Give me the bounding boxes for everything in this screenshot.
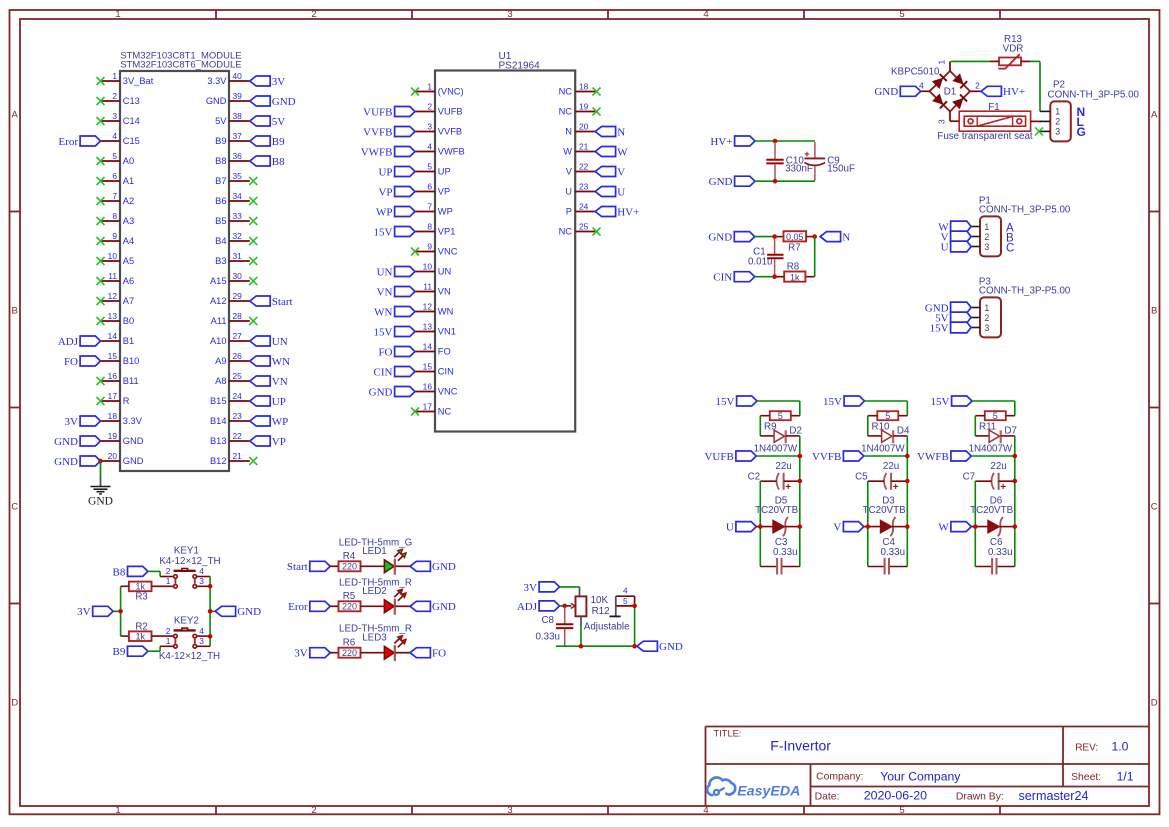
svg-text:VWFB: VWFB	[917, 451, 949, 463]
resistor R8 1k	[784, 261, 805, 282]
svg-text:LED1: LED1	[362, 546, 387, 557]
svg-text:B8: B8	[272, 156, 285, 168]
svg-text:15V: 15V	[930, 322, 949, 334]
svg-text:A: A	[1151, 110, 1158, 121]
svg-text:+: +	[804, 149, 810, 160]
svg-text:22u: 22u	[990, 461, 1006, 472]
svg-text:8: 8	[112, 211, 117, 221]
pin 23 U	[565, 182, 595, 197]
wire N to R8	[805, 237, 814, 277]
svg-text:11: 11	[108, 271, 117, 281]
net label 15V	[716, 396, 757, 408]
svg-text:15V: 15V	[374, 226, 393, 238]
svg-text:A15: A15	[210, 276, 227, 286]
pin 1 (VNC)	[411, 82, 464, 97]
svg-text:VVFB: VVFB	[363, 126, 392, 138]
pin 37 B9	[215, 131, 250, 146]
svg-text:C8: C8	[541, 615, 554, 626]
pin 3 C14	[97, 111, 140, 126]
svg-text:4: 4	[623, 585, 628, 595]
svg-text:R: R	[123, 396, 130, 406]
svg-text:WP: WP	[438, 207, 453, 217]
svg-text:W: W	[617, 146, 628, 158]
svg-text:Eror: Eror	[288, 601, 308, 613]
TVS diode D5 TC20VTB	[755, 495, 798, 536]
net label CIN	[374, 366, 415, 378]
wire left rail	[974, 481, 976, 567]
svg-text:17: 17	[423, 402, 433, 412]
svg-text:15: 15	[108, 351, 118, 361]
svg-text:2: 2	[984, 232, 989, 242]
wire R to D	[868, 416, 882, 436]
svg-text:C5: C5	[855, 471, 868, 482]
svg-text:18: 18	[108, 411, 118, 421]
svg-text:D7: D7	[1004, 426, 1017, 437]
net label 3V	[524, 582, 560, 594]
pin 6 A1	[97, 171, 135, 186]
net label 5V	[935, 312, 971, 324]
svg-text:14: 14	[108, 331, 118, 341]
node	[798, 454, 803, 459]
svg-text:ADJ: ADJ	[58, 336, 79, 348]
svg-text:EasyEDA: EasyEDA	[737, 783, 800, 799]
pin 2 C13	[97, 91, 140, 106]
svg-text:5: 5	[885, 411, 890, 421]
wire to ground	[100, 461, 102, 486]
node	[773, 139, 778, 144]
svg-text:GND: GND	[432, 561, 456, 573]
svg-text:GND: GND	[432, 601, 456, 613]
svg-text:8: 8	[427, 222, 432, 232]
svg-text:A10: A10	[210, 336, 227, 346]
svg-text:R4: R4	[343, 551, 356, 562]
wire bottom rail	[556, 606, 637, 646]
svg-text:2: 2	[166, 566, 171, 576]
svg-text:G: G	[1077, 125, 1086, 139]
svg-text:C: C	[1006, 243, 1014, 255]
pin 30 A15	[210, 271, 257, 286]
pin 12 A7	[97, 291, 135, 306]
svg-text:WP: WP	[272, 416, 289, 428]
svg-text:B: B	[12, 306, 18, 317]
wire R to D	[975, 416, 989, 436]
svg-text:C7: C7	[963, 471, 976, 482]
svg-text:FO: FO	[378, 346, 392, 358]
svg-text:N: N	[617, 126, 625, 138]
svg-text:5V: 5V	[272, 116, 286, 128]
connector P1 CONN-TH_3P-P5.00	[971, 196, 1071, 257]
svg-text:9: 9	[112, 231, 117, 241]
pin 15 CIN	[415, 362, 454, 377]
pin 17 R	[97, 391, 130, 406]
pin 19 GND	[101, 431, 144, 446]
net label GND	[708, 232, 754, 244]
svg-text:12: 12	[108, 291, 118, 301]
svg-text:31: 31	[233, 251, 243, 261]
svg-text:B5: B5	[215, 216, 226, 226]
net label 15V	[931, 396, 972, 408]
svg-text:A9: A9	[215, 356, 226, 366]
svg-text:1: 1	[1055, 107, 1060, 117]
svg-text:22u: 22u	[883, 461, 899, 472]
svg-text:B6: B6	[215, 196, 226, 206]
capacitor C1 0.01u	[748, 239, 784, 277]
svg-text:VP1: VP1	[438, 227, 456, 237]
svg-text:2020-06-20: 2020-06-20	[864, 789, 927, 803]
svg-text:STM32F103C8T6_MODULE: STM32F103C8T6_MODULE	[120, 60, 241, 71]
svg-text:VWFB: VWFB	[438, 147, 465, 157]
svg-text:VP: VP	[272, 436, 286, 448]
pin 40 3.3V	[207, 71, 249, 86]
svg-text:1k: 1k	[790, 272, 800, 282]
net label U	[941, 241, 971, 253]
pin 18 NC	[559, 82, 601, 97]
svg-text:B13: B13	[210, 436, 227, 446]
wire R to D	[760, 416, 774, 436]
svg-text:V: V	[566, 167, 573, 177]
svg-text:WN: WN	[374, 306, 392, 318]
svg-text:1: 1	[984, 303, 989, 313]
net label GND	[874, 86, 920, 98]
node	[579, 604, 637, 649]
wire 15V	[757, 401, 800, 416]
svg-text:GND: GND	[54, 456, 78, 468]
svg-text:sermaster24: sermaster24	[1019, 789, 1089, 803]
wire B9 to KEY2.1	[148, 646, 174, 651]
svg-text:GND: GND	[369, 386, 393, 398]
svg-text:TC20VTB: TC20VTB	[863, 505, 906, 516]
net label B8	[113, 566, 148, 578]
net label B9	[250, 136, 285, 148]
svg-text:V: V	[617, 166, 625, 178]
svg-text:18: 18	[579, 82, 589, 92]
svg-text:VN1: VN1	[438, 327, 456, 337]
svg-text:10: 10	[423, 262, 433, 272]
svg-text:1k: 1k	[135, 632, 145, 642]
net label HV+	[981, 86, 1025, 98]
svg-text:HV+: HV+	[617, 206, 639, 218]
pin 12 WN	[415, 302, 453, 317]
svg-text:6: 6	[112, 171, 117, 181]
svg-text:A1: A1	[123, 176, 134, 186]
net label 3V	[65, 416, 101, 428]
svg-text:N: N	[842, 232, 850, 244]
svg-text:P: P	[566, 207, 572, 217]
svg-text:39: 39	[233, 91, 243, 101]
node	[772, 234, 777, 239]
svg-text:Date:: Date:	[815, 791, 840, 802]
net label 15V	[930, 322, 971, 334]
svg-text:A12: A12	[210, 296, 227, 306]
svg-text:24: 24	[233, 391, 243, 401]
svg-text:CIN: CIN	[713, 272, 732, 284]
diode D7 1N4007W	[969, 426, 1017, 455]
resistor R6 220	[330, 638, 360, 658]
pin 16 VNC	[415, 382, 458, 397]
pin 10 A5	[97, 251, 135, 266]
svg-text:5: 5	[778, 411, 783, 421]
pin 22 B13	[210, 431, 250, 446]
svg-text:Adjustable: Adjustable	[584, 622, 630, 633]
diode D2 1N4007W	[754, 426, 802, 455]
node	[773, 179, 778, 184]
wire phase	[971, 526, 1015, 528]
svg-text:VVFB: VVFB	[438, 127, 462, 137]
svg-text:37: 37	[233, 131, 243, 141]
capacitor C6 0.33u	[975, 537, 1015, 574]
net label Start	[287, 561, 330, 573]
bridge rectifier D1 KBPC5010	[891, 60, 981, 125]
wire 15V	[865, 401, 908, 416]
IC U1 PS21964	[435, 51, 575, 432]
svg-text:HV+: HV+	[710, 136, 732, 148]
svg-text:LED2: LED2	[362, 586, 387, 597]
net label Eror	[288, 601, 330, 613]
svg-text:D2: D2	[789, 426, 802, 437]
pin 17 NC	[411, 402, 452, 417]
svg-text:K4-12×12_TH: K4-12×12_TH	[159, 651, 220, 662]
svg-text:R5: R5	[343, 591, 356, 602]
net label 3V	[250, 76, 285, 88]
svg-text:NC: NC	[559, 107, 573, 117]
wire bridge to R13	[951, 60, 990, 62]
pin 39 GND	[206, 91, 250, 106]
pin 7 A2	[97, 191, 135, 206]
svg-text:C2: C2	[748, 471, 761, 482]
label A	[1006, 223, 1014, 235]
svg-text:15V: 15V	[716, 396, 735, 408]
svg-text:B8: B8	[215, 156, 226, 166]
wire 3V to R12	[560, 587, 580, 597]
svg-text:VNC: VNC	[438, 387, 458, 397]
svg-text:6: 6	[427, 182, 432, 192]
IC STM32F103C8T1_MODULE	[120, 50, 242, 471]
net label N	[595, 126, 625, 138]
resistor R2 1k	[129, 621, 152, 641]
svg-text:3: 3	[199, 636, 204, 646]
svg-text:GND: GND	[709, 176, 733, 188]
pin 36 B8	[215, 151, 250, 166]
svg-text:GND: GND	[123, 456, 144, 466]
capacitor C8 0.33u	[535, 607, 573, 646]
svg-text:TC20VTB: TC20VTB	[970, 505, 1013, 516]
net label GND	[54, 456, 100, 468]
net label UP	[250, 396, 286, 408]
resistor R4 220	[330, 551, 360, 571]
fuse F1	[937, 102, 1041, 142]
svg-text:3.3V: 3.3V	[207, 76, 227, 86]
pin 5 A0	[97, 151, 135, 166]
svg-text:3V: 3V	[272, 76, 286, 88]
svg-text:UP: UP	[272, 396, 286, 408]
svg-text:F-Invertor: F-Invertor	[770, 738, 831, 754]
net label GND	[410, 561, 456, 573]
node	[905, 479, 910, 484]
pin 26 A9	[215, 351, 250, 366]
svg-text:1: 1	[115, 9, 120, 20]
svg-text:13: 13	[108, 311, 118, 321]
pin 15 B10	[101, 351, 140, 366]
capacitor C9 150uF	[804, 142, 855, 181]
wire left rail	[759, 481, 761, 567]
svg-text:A7: A7	[123, 296, 134, 306]
svg-text:13: 13	[423, 322, 433, 332]
svg-text:Drawn By:: Drawn By:	[956, 791, 1004, 802]
svg-text:B14: B14	[210, 416, 227, 426]
pin 16 B11	[97, 371, 139, 386]
connector P3 CONN-TH_3P-P5.00	[971, 277, 1071, 338]
svg-text:2: 2	[311, 805, 316, 816]
pin 2 VUFB	[415, 102, 463, 117]
net label U	[595, 186, 625, 198]
svg-text:3: 3	[507, 9, 512, 20]
svg-text:5: 5	[899, 9, 904, 20]
EasyEDA logo	[707, 777, 800, 799]
svg-text:5: 5	[993, 411, 998, 421]
svg-text:23: 23	[233, 411, 243, 421]
svg-text:UP: UP	[378, 166, 392, 178]
svg-text:D4: D4	[897, 426, 910, 437]
svg-text:3: 3	[937, 119, 947, 124]
svg-text:D: D	[11, 698, 18, 709]
wire left rail	[867, 481, 869, 567]
TVS diode D3 TC20VTB	[863, 495, 906, 536]
wire phase	[756, 526, 800, 528]
svg-text:2: 2	[975, 81, 980, 91]
net label 15V	[374, 326, 415, 338]
svg-text:12: 12	[423, 302, 433, 312]
svg-text:4: 4	[703, 9, 708, 20]
net label VUFB	[704, 451, 756, 463]
svg-text:U: U	[565, 187, 572, 197]
pin 25 A8	[215, 371, 250, 386]
net label Eror	[58, 136, 100, 148]
svg-text:25: 25	[579, 222, 589, 232]
wire FB	[756, 455, 800, 457]
svg-text:VP: VP	[438, 187, 450, 197]
svg-text:2: 2	[1055, 117, 1060, 127]
svg-text:15V: 15V	[374, 326, 393, 338]
pin 5 UP	[415, 162, 451, 177]
svg-text:B3: B3	[215, 256, 226, 266]
wire HV+ rail	[755, 140, 815, 142]
frame column numbers	[115, 9, 904, 816]
pin 8 VP1	[415, 222, 455, 237]
pin 35 B7	[215, 171, 257, 186]
svg-text:GND: GND	[659, 641, 683, 653]
svg-text:3V: 3V	[77, 606, 91, 618]
svg-text:B15: B15	[210, 396, 227, 406]
pin 38 5V	[215, 111, 250, 126]
svg-text:5V: 5V	[215, 116, 227, 126]
pin 29 A12	[210, 291, 250, 306]
svg-text:GND: GND	[123, 436, 144, 446]
resistor R5 220	[330, 591, 360, 611]
svg-text:5: 5	[623, 596, 628, 606]
svg-text:A6: A6	[123, 276, 134, 286]
pin 4 C15	[101, 131, 140, 146]
net label VUFB	[363, 106, 415, 118]
svg-text:2: 2	[112, 91, 117, 101]
svg-text:A11: A11	[211, 316, 227, 326]
svg-text:HV+: HV+	[1003, 86, 1025, 98]
svg-text:A4: A4	[123, 236, 134, 246]
svg-text:TITLE:: TITLE:	[714, 729, 742, 739]
svg-text:WN: WN	[438, 307, 454, 317]
svg-text:1N4007W: 1N4007W	[861, 443, 905, 454]
net label V	[833, 522, 863, 534]
capacitor C10 330nF	[766, 142, 813, 181]
wire B8 to KEY1.2	[148, 571, 174, 576]
node	[118, 609, 123, 614]
svg-text:UN: UN	[272, 336, 288, 348]
svg-text:C15: C15	[123, 136, 140, 146]
svg-text:A5: A5	[123, 256, 134, 266]
svg-text:GND: GND	[54, 436, 78, 448]
svg-text:2: 2	[984, 313, 989, 323]
net label VWFB	[917, 451, 971, 463]
svg-text:FO: FO	[64, 356, 78, 368]
svg-text:B10: B10	[123, 356, 140, 366]
svg-text:22u: 22u	[775, 461, 791, 472]
net label HV+	[710, 136, 755, 148]
node pin20 junction	[98, 459, 103, 464]
capacitor C2 22u	[748, 461, 800, 493]
capacitor C5 22u	[855, 461, 907, 493]
svg-text:ADJ: ADJ	[517, 601, 538, 613]
pin 13 B0	[97, 311, 135, 326]
svg-text:35: 35	[233, 171, 243, 181]
svg-text:B7: B7	[215, 176, 226, 186]
svg-text:4: 4	[199, 566, 204, 576]
svg-text:B11: B11	[123, 376, 139, 386]
svg-text:VUFB: VUFB	[438, 107, 463, 117]
capacitor C4 0.33u	[868, 537, 908, 574]
svg-text:C14: C14	[123, 116, 140, 126]
svg-text:36: 36	[233, 151, 243, 161]
net label WN	[250, 356, 290, 368]
svg-text:14: 14	[423, 342, 433, 352]
net label GND	[215, 606, 261, 618]
node	[798, 479, 803, 484]
svg-text:10: 10	[108, 251, 118, 261]
wire 15V	[972, 401, 1015, 416]
svg-text:UN: UN	[377, 266, 393, 278]
svg-text:NC: NC	[559, 87, 573, 97]
svg-text:GND: GND	[874, 86, 898, 98]
net label GND	[54, 436, 100, 448]
pin 27 A10	[210, 331, 250, 346]
net label WP	[376, 206, 415, 218]
LED LED2 LED-TH-5mm_R	[339, 577, 412, 614]
svg-text:1: 1	[937, 60, 947, 65]
node	[1013, 454, 1018, 459]
svg-text:VWFB: VWFB	[361, 146, 393, 158]
connector P2 CONN-TH_3P-P5.00	[1035, 80, 1140, 142]
svg-text:A2: A2	[123, 196, 134, 206]
wire right rail	[197, 577, 216, 647]
wire R2 to KEY2.2	[152, 635, 174, 637]
svg-text:4: 4	[199, 626, 204, 636]
pin 8 A3	[97, 211, 135, 226]
svg-text:1: 1	[984, 222, 989, 232]
pin 7 WP	[415, 202, 453, 217]
svg-text:VN: VN	[377, 286, 393, 298]
svg-text:GND: GND	[272, 96, 296, 108]
svg-text:A0: A0	[123, 156, 134, 166]
svg-text:0.33u: 0.33u	[988, 547, 1013, 558]
wire ADJ	[560, 605, 565, 607]
